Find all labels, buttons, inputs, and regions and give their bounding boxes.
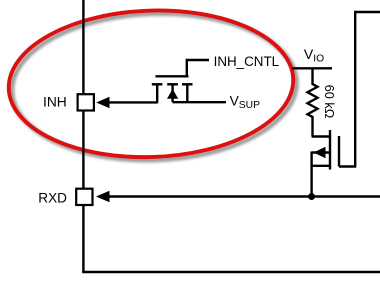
body diode arrow of Q1 xyxy=(167,89,178,99)
svg-text:60 kΩ: 60 kΩ xyxy=(322,85,337,119)
left stem xyxy=(156,84,158,103)
annotation: red ellipse highlight xyxy=(6,6,296,162)
svg-text:VIO: VIO xyxy=(304,46,324,64)
resistor R1 60 kOhm xyxy=(308,68,318,136)
pin RXD box xyxy=(76,189,92,205)
wire: left border vertical of IC block xyxy=(82,0,84,272)
node VIO supply rail xyxy=(292,67,332,69)
body-source tie vertical xyxy=(310,152,312,167)
wire: bottom border of IC block xyxy=(82,271,380,273)
body lead with arrow xyxy=(312,151,330,153)
arrow into INH pin xyxy=(96,97,109,108)
svg-text:RXD: RXD xyxy=(38,191,67,206)
wire: top-right corner horizontal of inner block xyxy=(355,11,380,13)
arrow into RXD pin xyxy=(96,191,110,202)
svg-text:VSUP: VSUP xyxy=(230,93,261,111)
gate lead xyxy=(187,60,209,76)
left cap xyxy=(152,83,163,85)
annotation: red ellipse shadow xyxy=(9,9,299,165)
wire: RXD net horizontal xyxy=(107,195,380,197)
source lead xyxy=(312,166,330,197)
arrow on Q2 body xyxy=(314,147,326,158)
gate lead to block xyxy=(339,165,356,167)
gate plate xyxy=(156,75,189,77)
source lead to VSUP xyxy=(173,101,226,103)
svg-text:INH_CNTL: INH_CNTL xyxy=(214,54,279,69)
drain lead to INH xyxy=(108,101,157,103)
middle cap xyxy=(167,83,178,85)
transistor Q1 (INH high-side FET) xyxy=(108,60,226,103)
middle stem xyxy=(171,84,173,102)
svg-text:INH: INH xyxy=(43,94,67,109)
right stem xyxy=(186,84,188,102)
junction dot on RXD net xyxy=(308,193,315,200)
gate plate xyxy=(338,136,340,167)
pin INH box xyxy=(78,94,94,110)
right cap xyxy=(182,83,193,85)
drain lead xyxy=(312,135,330,137)
wire: top-right corner vertical down to Q2 gate xyxy=(354,11,356,167)
channel bar xyxy=(329,130,331,170)
transistor Q2 (receiver output FET) xyxy=(312,130,357,197)
